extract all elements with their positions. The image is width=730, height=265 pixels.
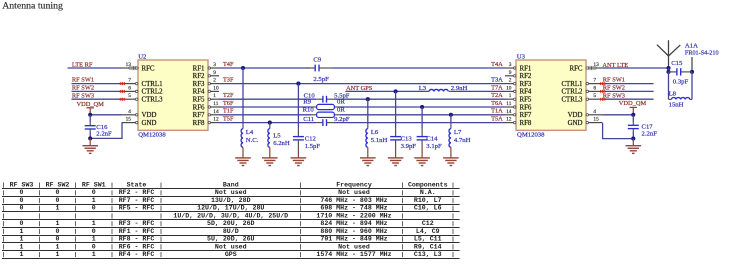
wire net T6A (R9 to U3 RF6): [340, 106, 505, 108]
svg-text:RF SW2: RF SW2: [603, 85, 625, 92]
op-amp U3 QM12038 (antenna tuner IC): [516, 60, 586, 130]
node GND junction right: [631, 137, 635, 141]
svg-text:C10, L6: C10, L6: [414, 205, 442, 212]
svg-text:0R: 0R: [337, 106, 345, 113]
svg-text:T4F: T4F: [223, 61, 234, 68]
svg-text:T3F: T3F: [223, 77, 234, 84]
svg-text:RF5 - RFC: RF5 - RFC: [119, 205, 155, 212]
table line 6: [2, 235, 460, 237]
svg-text:0.3pF: 0.3pF: [673, 79, 689, 86]
node VDD_QM / C16 junction: [88, 113, 92, 117]
svg-text:698 MHz - 748 MHz: 698 MHz - 748 MHz: [320, 205, 387, 212]
svg-text:RF8: RF8: [520, 120, 532, 127]
svg-text:2.2nF: 2.2nF: [96, 130, 112, 137]
svg-text:N.C.: N.C.: [246, 137, 259, 144]
ground symbol C14: [421, 140, 423, 149]
antenna feed pin stub: [691, 57, 693, 72]
svg-text:Not used: Not used: [215, 243, 247, 250]
table row 3: [3, 206, 5, 211]
wire C16 bottom: [89, 129, 91, 132]
wire net T5F (U2 RF8 to C11): [219, 122, 316, 124]
table line 2: [2, 204, 460, 206]
svg-text:RF SW1: RF SW1: [72, 77, 94, 84]
svg-text:10: 10: [506, 85, 512, 91]
svg-text:T2F: T2F: [223, 92, 234, 99]
svg-text:5D, 20U, 26D: 5D, 20U, 26D: [207, 220, 255, 227]
ground symbol left (C16): [89, 138, 91, 145]
wire VDD_QM to U2 VDD pin: [90, 114, 121, 116]
svg-text:1: 1: [92, 236, 96, 243]
svg-text:1: 1: [20, 243, 24, 250]
capacitor C11 (series): [316, 122, 323, 124]
svg-text:9.2pF: 9.2pF: [334, 116, 350, 123]
svg-text:0: 0: [20, 189, 24, 196]
node VDD_QM / C17 junction: [631, 113, 635, 117]
svg-text:6: 6: [593, 85, 596, 91]
no-ERC cross RF_SW1 left: [120, 82, 123, 85]
wire net T1F (U2 RF7 to R10): [219, 114, 311, 116]
table row 6: [3, 229, 5, 234]
svg-text:QM12038: QM12038: [138, 131, 166, 138]
table line 4: [2, 219, 460, 221]
table line 7: [2, 242, 460, 244]
svg-text:ANT GPS: ANT GPS: [346, 85, 373, 92]
capacitor C17: [628, 124, 639, 126]
svg-text:1: 1: [92, 197, 96, 204]
svg-text:824 MHz - 894 MHz: 824 MHz - 894 MHz: [320, 220, 387, 227]
no-ERC cross RF_SW3 left: [120, 98, 123, 101]
svg-text:ANT LTE: ANT LTE: [602, 62, 628, 69]
wire U3 VDD pin to VDD_QM: [602, 114, 633, 116]
svg-text:1: 1: [56, 251, 60, 258]
capacitor C14 branch from T6A: [420, 105, 424, 109]
capacitor C12 branch from T3F: [296, 82, 300, 86]
svg-text:CTRL1: CTRL1: [142, 81, 164, 88]
svg-text:0: 0: [56, 197, 60, 204]
svg-text:RF2 - RFC: RF2 - RFC: [119, 189, 155, 196]
ground symbol L6: [367, 147, 369, 157]
node GND junction left: [88, 136, 92, 140]
svg-text:Not used: Not used: [215, 189, 247, 196]
inductor L5 branch from T5F: [268, 121, 272, 125]
svg-text:5U, 20D, 26U: 5U, 20D, 26U: [207, 236, 255, 243]
inductor L3 (series): [428, 90, 430, 92]
svg-text:RF6: RF6: [520, 104, 532, 111]
svg-text:Components: Components: [408, 182, 448, 189]
svg-text:1: 1: [56, 220, 60, 227]
svg-text:L4, C9: L4, C9: [416, 228, 440, 235]
table row 2: [3, 198, 5, 203]
ground symbol C13: [395, 140, 397, 149]
svg-text:9: 9: [213, 70, 216, 76]
svg-text:6.2nH: 6.2nH: [273, 140, 290, 147]
svg-text:L8: L8: [669, 90, 677, 97]
svg-text:9: 9: [509, 70, 512, 76]
svg-text:1: 1: [92, 220, 96, 227]
svg-text:3: 3: [509, 62, 512, 68]
svg-text:Frequency: Frequency: [336, 182, 372, 189]
svg-text:0: 0: [92, 205, 96, 212]
svg-text:1: 1: [20, 228, 24, 235]
svg-text:RF7: RF7: [193, 112, 205, 119]
wire net T2A (C10 to U3 RF5): [334, 98, 505, 100]
svg-text:RF SW1: RF SW1: [603, 77, 625, 84]
wire net RF_SW2 (right): [602, 90, 653, 92]
svg-text:0R: 0R: [337, 99, 345, 106]
svg-text:C11: C11: [303, 116, 314, 123]
svg-text:RF SW3: RF SW3: [72, 92, 94, 99]
svg-text:C13, L3: C13, L3: [414, 251, 442, 258]
svg-text:VDD: VDD: [142, 112, 157, 119]
svg-text:CTRL3: CTRL3: [561, 97, 583, 104]
wire C17 bottom: [632, 129, 634, 132]
wire C16 top: [89, 115, 91, 123]
svg-text:RF8 - RFC: RF8 - RFC: [119, 236, 155, 243]
table row 4: [3, 213, 5, 218]
capacitor C16: [85, 125, 96, 127]
node ANT_LTE / antenna junction: [666, 66, 670, 70]
svg-text:RF SW2: RF SW2: [46, 182, 70, 189]
wire net T3F / T3A (U2 RF3 to U3 RF3): [219, 83, 505, 85]
table line 1: [2, 196, 460, 198]
svg-text:RF3: RF3: [193, 81, 205, 88]
wire net RF_SW1 (right): [602, 83, 653, 85]
svg-text:T1A: T1A: [491, 108, 503, 115]
svg-text:T5F: T5F: [223, 116, 234, 123]
svg-text:RF4: RF4: [520, 89, 532, 96]
svg-text:R9: R9: [303, 99, 311, 106]
svg-text:QM12038: QM12038: [517, 131, 545, 138]
node C15/L8 left: [666, 70, 670, 74]
svg-text:7: 7: [128, 78, 131, 84]
svg-text:880 MHz - 960 MHz: 880 MHz - 960 MHz: [320, 228, 387, 235]
svg-text:RF3 - RFC: RF3 - RFC: [119, 220, 155, 227]
svg-text:14: 14: [213, 109, 219, 115]
svg-text:CTRL3: CTRL3: [142, 97, 164, 104]
svg-text:RF2: RF2: [520, 73, 532, 80]
svg-text:2.2nF: 2.2nF: [642, 131, 658, 138]
wire C17 top: [632, 115, 634, 123]
svg-text:5: 5: [128, 93, 131, 99]
svg-text:RF2: RF2: [193, 73, 205, 80]
wire net ANT_LTE: [602, 67, 668, 69]
svg-text:1574 MHz - 1577 MHz: 1574 MHz - 1577 MHz: [316, 251, 391, 258]
capacitor C9 (series): [306, 67, 315, 69]
svg-text:L7: L7: [454, 129, 462, 136]
svg-text:RF1 - RFC: RF1 - RFC: [119, 228, 155, 235]
svg-text:RF SW2: RF SW2: [72, 85, 94, 92]
svg-text:LTE RF: LTE RF: [72, 61, 93, 68]
svg-text:L3: L3: [419, 85, 427, 92]
capacitor C10 (series): [316, 98, 323, 100]
svg-text:RF6: RF6: [193, 104, 205, 111]
svg-text:6: 6: [128, 85, 131, 91]
table row 1: [3, 190, 5, 195]
wire net T5A (C11 to U3 RF8): [334, 122, 505, 124]
svg-text:0: 0: [92, 243, 96, 250]
svg-text:RF SW3: RF SW3: [603, 92, 625, 99]
svg-text:U3: U3: [517, 53, 526, 60]
inductor L8 (parallel with C15): [668, 72, 670, 100]
svg-text:RF5: RF5: [520, 97, 532, 104]
svg-text:N.A.: N.A.: [420, 189, 436, 196]
ground symbol right (C17): [632, 139, 634, 146]
svg-text:2.5pF: 2.5pF: [313, 76, 329, 83]
wire net RF_SW3 (right): [602, 98, 653, 100]
svg-text:4.7nH: 4.7nH: [454, 137, 471, 144]
svg-text:3.9pF: 3.9pF: [401, 143, 417, 150]
svg-text:C14: C14: [426, 135, 438, 142]
table row 5: [3, 221, 5, 226]
svg-text:0: 0: [56, 236, 60, 243]
wire net T4A (C9 to U3 RF1): [332, 67, 505, 69]
svg-text:11: 11: [213, 101, 218, 107]
svg-text:12: 12: [506, 117, 512, 123]
wire net T7A (L3 to U3 RF4): [451, 90, 505, 92]
svg-text:RF4 - RFC: RF4 - RFC: [119, 251, 155, 258]
wire U3 GND pin to ground: [602, 123, 604, 139]
svg-text:13U/D, 28D: 13U/D, 28D: [211, 197, 251, 204]
svg-text:1: 1: [20, 236, 24, 243]
svg-text:RFC: RFC: [569, 65, 582, 72]
svg-text:C9: C9: [313, 56, 321, 63]
no-ERC cross RF_SW1 right: [600, 82, 603, 85]
U3 left pins: [505, 67, 513, 69]
wire net T4F (U2 RF1 to C9): [219, 67, 310, 69]
svg-text:746 MHz - 803 MHz: 746 MHz - 803 MHz: [320, 197, 387, 204]
svg-text:R9, C14: R9, C14: [414, 243, 442, 250]
eye marker on U3 RFC pin: [586, 66, 597, 70]
svg-text:0: 0: [92, 228, 96, 235]
svg-text:15: 15: [593, 117, 599, 123]
svg-text:2: 2: [213, 78, 216, 84]
svg-text:L5: L5: [273, 133, 281, 140]
no-ERC cross RF_SW3 right: [600, 98, 603, 101]
table line 0: [2, 188, 460, 190]
svg-text:RF5: RF5: [193, 97, 205, 104]
resistor R9 (series, 0R): [311, 106, 317, 108]
svg-text:15: 15: [126, 117, 132, 123]
U2 left pins: [122, 67, 136, 69]
wire net LTE_RF: [68, 67, 122, 69]
wire antenna junction down: [668, 68, 670, 72]
svg-text:State: State: [127, 182, 147, 189]
svg-text:1U/D, 2U/D, 3U/D, 4U/D, 25U/D: 1U/D, 2U/D, 3U/D, 4U/D, 25U/D: [173, 212, 288, 219]
svg-text:15nH: 15nH: [669, 101, 684, 108]
svg-text:T1F: T1F: [223, 108, 234, 115]
table row 7: [3, 237, 5, 242]
svg-text:GND: GND: [142, 120, 157, 127]
svg-text:RF6 - RFC: RF6 - RFC: [119, 243, 155, 250]
svg-text:GND: GND: [568, 120, 583, 127]
svg-text:RF4: RF4: [193, 89, 205, 96]
svg-text:Antenna tuning: Antenna tuning: [2, 0, 63, 11]
svg-text:1: 1: [509, 93, 512, 99]
ground symbol C12: [297, 140, 299, 149]
svg-text:RF8: RF8: [193, 120, 205, 127]
svg-text:0: 0: [92, 189, 96, 196]
op-amp U2 QM12038 (antenna tuner IC): [138, 60, 208, 130]
node T4F / L4 junction: [241, 66, 245, 70]
svg-text:T7A: T7A: [491, 84, 503, 91]
svg-text:1.5pF: 1.5pF: [305, 143, 321, 150]
no-ERC cross RF_SW2 left: [120, 90, 123, 93]
svg-text:L4: L4: [246, 129, 254, 136]
svg-text:CTRL1: CTRL1: [561, 81, 583, 88]
ground symbol L4: [242, 147, 244, 157]
svg-text:T6A: T6A: [491, 100, 503, 107]
svg-text:R10: R10: [303, 106, 315, 113]
svg-text:L6: L6: [371, 129, 379, 136]
svg-text:VDD_QM: VDD_QM: [619, 100, 647, 107]
table line 8: [2, 250, 460, 252]
svg-text:12U/D, 17U/D, 28U: 12U/D, 17U/D, 28U: [197, 205, 264, 212]
svg-text:1710 MHz - 2200 MHz: 1710 MHz - 2200 MHz: [316, 212, 391, 219]
ground symbol L7: [450, 147, 452, 157]
svg-text:1: 1: [213, 93, 216, 99]
svg-text:1: 1: [56, 205, 60, 212]
svg-text:1: 1: [56, 243, 60, 250]
svg-text:RF3: RF3: [520, 81, 532, 88]
wire net RF_SW1 (left): [72, 83, 122, 85]
svg-text:11: 11: [506, 101, 511, 107]
inductor L6 branch from T2A: [366, 97, 370, 101]
table row 0: [3, 183, 5, 188]
U3 right pins: [589, 67, 603, 69]
svg-text:3: 3: [213, 62, 216, 68]
svg-text:T5A: T5A: [491, 116, 503, 123]
svg-text:CTRL2: CTRL2: [142, 89, 164, 96]
svg-text:VDD_QM: VDD_QM: [77, 101, 105, 108]
svg-text:791 MHz - 849 MHz: 791 MHz - 849 MHz: [320, 236, 387, 243]
svg-text:RF SW3: RF SW3: [10, 182, 34, 189]
svg-text:RF1: RF1: [193, 65, 205, 72]
wire U2 GND pin to ground: [121, 123, 123, 139]
svg-text:RF SW1: RF SW1: [82, 182, 106, 189]
svg-text:12: 12: [213, 117, 219, 123]
svg-text:4: 4: [128, 109, 131, 115]
wire net T2F (U2 RF5 to C10): [219, 98, 316, 100]
svg-text:C12: C12: [305, 135, 316, 142]
table line 3: [2, 211, 460, 213]
table line 9: [2, 258, 460, 260]
no-ERC cross RF_SW2 right: [600, 90, 603, 93]
svg-text:GPS: GPS: [225, 251, 237, 258]
svg-text:T6F: T6F: [223, 100, 234, 107]
U2 right pins: [211, 67, 220, 69]
svg-text:VDD: VDD: [568, 112, 583, 119]
wire net RF_SW2 (left): [72, 90, 122, 92]
svg-text:C12: C12: [422, 220, 434, 227]
svg-text:7: 7: [593, 78, 596, 84]
ground symbol L5: [269, 147, 271, 157]
wire net T1A (R10 to U3 RF7): [340, 114, 505, 116]
svg-text:4: 4: [593, 109, 596, 115]
svg-text:T4A: T4A: [491, 61, 503, 68]
svg-text:0: 0: [20, 220, 24, 227]
wire net T6F (U2 RF6 to R9): [219, 106, 311, 108]
svg-text:1: 1: [20, 251, 24, 258]
svg-text:T3A: T3A: [491, 77, 503, 84]
table row 9: [3, 252, 5, 257]
svg-text:U2: U2: [138, 53, 146, 60]
wire net RF_SW3 (left): [72, 98, 122, 100]
inductor L4 branch from T4F: [242, 68, 244, 124]
eye marker on U2 RFC pin: [128, 66, 139, 70]
svg-text:Not used: Not used: [338, 189, 370, 196]
capacitor C15 (series): [669, 71, 677, 73]
svg-text:2: 2: [509, 78, 512, 84]
svg-text:L5, C11: L5, C11: [414, 236, 442, 243]
svg-text:C15: C15: [671, 60, 683, 67]
svg-text:1: 1: [92, 251, 96, 258]
svg-text:R10, L7: R10, L7: [414, 197, 442, 204]
svg-text:CTRL2: CTRL2: [561, 89, 583, 96]
antenna A1A trident symbol: [668, 40, 670, 56]
svg-text:FR01-S4-210: FR01-S4-210: [685, 49, 719, 56]
svg-text:Not used: Not used: [338, 243, 370, 250]
svg-text:3.1pF: 3.1pF: [426, 143, 442, 150]
svg-text:5.1nH: 5.1nH: [371, 137, 388, 144]
svg-text:14: 14: [506, 109, 512, 115]
svg-text:RF1: RF1: [520, 65, 532, 72]
svg-text:RFC: RFC: [142, 65, 155, 72]
wire net ANT_GPS: [345, 90, 428, 92]
resistor R10 (series, 0R): [311, 114, 317, 116]
svg-text:8U/D: 8U/D: [223, 228, 239, 235]
svg-text:0: 0: [20, 205, 24, 212]
svg-text:C13: C13: [401, 135, 413, 142]
svg-text:0: 0: [20, 197, 24, 204]
node C15/L8 right: [690, 70, 694, 74]
svg-text:5: 5: [593, 93, 596, 99]
table line 5: [2, 227, 460, 229]
svg-text:T2A: T2A: [491, 92, 503, 99]
svg-text:0: 0: [56, 228, 60, 235]
table row 8: [3, 244, 5, 249]
svg-text:RF7 - RFC: RF7 - RFC: [119, 197, 155, 204]
svg-text:Band: Band: [223, 182, 239, 189]
svg-text:0: 0: [56, 189, 60, 196]
capacitor C13 branch from ANT_GPS: [394, 89, 398, 93]
svg-text:RF7: RF7: [520, 112, 532, 119]
svg-text:10: 10: [213, 85, 219, 91]
inductor L7 branch from T1A: [449, 113, 453, 117]
